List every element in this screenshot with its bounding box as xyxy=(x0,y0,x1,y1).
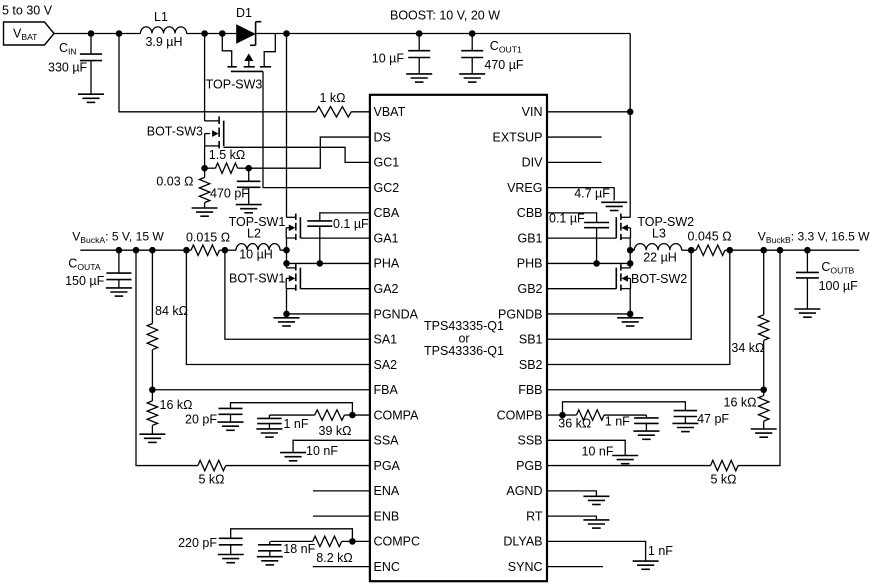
inductor L3 xyxy=(630,227,691,265)
svg-text:10 µH: 10 µH xyxy=(239,248,273,262)
ground (10 uF) xyxy=(406,74,432,82)
transistor TOP-SW1 xyxy=(229,214,301,241)
wire: SB1 xyxy=(547,250,691,339)
svg-text:PGB: PGB xyxy=(516,459,542,473)
pin label FBB xyxy=(518,383,542,397)
svg-text:SB1: SB1 xyxy=(519,333,543,347)
junction: PHB node xyxy=(627,260,634,267)
wire: BOT-SW3 gate to GC1 xyxy=(224,147,370,162)
ground (AGND) xyxy=(583,496,609,504)
svg-text:5 kΩ: 5 kΩ xyxy=(710,473,736,487)
svg-text:0.015 Ω: 0.015 Ω xyxy=(186,231,230,245)
svg-text:CBA: CBA xyxy=(374,206,400,220)
svg-text:GC1: GC1 xyxy=(374,156,400,170)
pin label SA1 xyxy=(374,333,398,347)
svg-text:22 µH: 22 µH xyxy=(643,251,677,265)
svg-text:5 to 30 V: 5 to 30 V xyxy=(2,4,53,18)
ground (RT) xyxy=(583,520,609,528)
svg-text:1 nF: 1 nF xyxy=(284,417,309,431)
svg-text:GA1: GA1 xyxy=(374,231,399,245)
svg-text:TOP-SW3: TOP-SW3 xyxy=(206,78,263,92)
svg-text:16 kΩ: 16 kΩ xyxy=(160,398,193,412)
pin label DS xyxy=(374,130,391,144)
resistor R 0.015 &#937; sense xyxy=(186,231,230,256)
wire: PGNDB to ground xyxy=(629,314,631,318)
wire: COMPA to 20 pF xyxy=(231,403,353,415)
pin label AGND xyxy=(506,484,542,498)
junction: COUTB tap xyxy=(804,247,811,254)
svg-text:GB2: GB2 xyxy=(517,282,542,296)
wire: PGNDA xyxy=(287,313,370,315)
pin label PHA xyxy=(374,257,400,271)
svg-text:AGND: AGND xyxy=(506,484,542,498)
svg-text:BOT-SW1: BOT-SW1 xyxy=(229,272,285,286)
resistor R 36 k&#937; xyxy=(558,410,646,431)
junction: A sense left xyxy=(183,247,190,254)
ground (47 pF) xyxy=(672,423,698,431)
svg-text:1 nF: 1 nF xyxy=(605,415,630,429)
wire: GA1 to TOP-SW1 gate xyxy=(300,237,370,239)
wire: VBAT pin branch xyxy=(119,34,316,112)
svg-text:FBB: FBB xyxy=(518,383,542,397)
svg-text:GC2: GC2 xyxy=(374,181,400,195)
svg-text:CBB: CBB xyxy=(517,206,543,220)
svg-text:COUTB: COUTB xyxy=(821,260,854,276)
ground (COUT1) xyxy=(459,74,485,82)
junction: CBB cap to PHB xyxy=(593,260,600,267)
svg-text:470 pF: 470 pF xyxy=(210,187,249,201)
resistor R 1 k&#937; xyxy=(316,91,370,117)
capacitor COUTB xyxy=(796,250,858,309)
svg-text:BOT-SW2: BOT-SW2 xyxy=(631,272,687,286)
svg-text:5 kΩ: 5 kΩ xyxy=(198,473,224,487)
junction: CBA cap to PHA xyxy=(317,260,324,267)
wire: FBA xyxy=(152,389,370,391)
wire: DLYAB xyxy=(547,541,673,561)
junction: COUTA tap xyxy=(116,247,123,254)
capacitor 10 &#181;F xyxy=(372,34,430,74)
resistor R 1.5 k&#937; xyxy=(205,148,249,173)
junction: FBA node xyxy=(149,386,156,393)
junction: COMPB node xyxy=(559,412,566,419)
resistor R 5 k&#937; (B) xyxy=(710,250,780,486)
capacitor 1 nF (COMPA) xyxy=(257,415,309,431)
wire: AGND xyxy=(547,491,596,496)
svg-text:8.2 kΩ: 8.2 kΩ xyxy=(316,551,352,565)
svg-text:0.1 µF: 0.1 µF xyxy=(549,212,585,226)
pin stub ENC xyxy=(313,566,370,568)
pin label SYNC xyxy=(508,560,543,574)
wire: VIN drop xyxy=(547,34,630,218)
resistor R 39 k&#937; xyxy=(269,410,352,438)
svg-text:BOT-SW3: BOT-SW3 xyxy=(147,125,203,139)
resistor R 34 k&#937; xyxy=(731,250,769,390)
junction: L3 tap xyxy=(627,247,634,254)
svg-text:GB1: GB1 xyxy=(517,231,542,245)
svg-text:DLYAB: DLYAB xyxy=(503,535,542,549)
junction: PGNDB xyxy=(627,311,634,318)
wire: BOT-SW2 source xyxy=(629,289,631,314)
svg-text:SA1: SA1 xyxy=(374,333,398,347)
junction: PGA tap xyxy=(133,247,140,254)
wire: RT xyxy=(547,516,596,520)
wire: boost out to TOP-SW1 drain xyxy=(286,34,288,218)
resistor R 0.045 &#937; sense xyxy=(687,230,731,256)
svg-text:VREG: VREG xyxy=(507,181,542,195)
wire: DS net xyxy=(249,137,370,168)
IC U1 part number text xyxy=(424,319,504,358)
transistor TOP-SW2 xyxy=(616,214,694,241)
svg-text:PHA: PHA xyxy=(374,257,400,271)
svg-text:330 µF: 330 µF xyxy=(48,61,88,75)
capacitor COUTA xyxy=(65,250,131,288)
wire: COMPA xyxy=(352,414,370,416)
junction: SW3 sense node xyxy=(201,165,208,172)
svg-text:0.1 µF: 0.1 µF xyxy=(333,217,369,231)
ground (0.03 ohm) xyxy=(192,208,218,216)
svg-text:COMPC: COMPC xyxy=(374,535,421,549)
wire: GB1 to TOP-SW2 gate xyxy=(547,237,616,239)
wire: SSB xyxy=(547,440,625,458)
ground (470 pF) xyxy=(236,205,262,213)
capacitor CBA bootstrap 0.1 &#181;F xyxy=(307,213,370,264)
junction: 10uF tap xyxy=(416,30,423,37)
junction: boost SW node xyxy=(201,30,208,37)
junction: PHA node xyxy=(283,260,290,267)
svg-text:0.045 Ω: 0.045 Ω xyxy=(687,230,731,244)
svg-text:470 µF: 470 µF xyxy=(484,58,524,72)
wire: SA1 xyxy=(225,250,370,339)
svg-text:DS: DS xyxy=(374,130,391,144)
capacitor 1 nF (COMPB) xyxy=(605,415,659,432)
junction: COMPC node xyxy=(349,538,356,545)
svg-text:PHB: PHB xyxy=(517,257,543,271)
pin stub ENB xyxy=(313,515,370,517)
svg-text:4.7 µF: 4.7 µF xyxy=(574,187,610,201)
pin label GB1 xyxy=(517,231,542,245)
pin label SA2 xyxy=(374,358,398,372)
junction: A sense right xyxy=(222,247,229,254)
wire: TOP-SW3 gate to GC2 xyxy=(263,71,370,187)
wire: PGA xyxy=(136,250,198,465)
svg-text:VBuckA: 5 V, 15 W: VBuckA: 5 V, 15 W xyxy=(72,230,164,246)
inductor L2 xyxy=(225,227,287,262)
pin label PGNDA xyxy=(374,307,419,321)
svg-text:20 pF: 20 pF xyxy=(185,413,217,427)
pin label SB1 xyxy=(519,333,543,347)
pin label VBAT xyxy=(374,105,406,119)
svg-text:84 kΩ: 84 kΩ xyxy=(155,304,188,318)
transistor TOP-SW3 xyxy=(206,34,276,92)
wire: COMPC xyxy=(352,540,370,542)
pin label ENB xyxy=(374,509,400,523)
pin label GC2 xyxy=(374,181,400,195)
svg-text:VBAT: VBAT xyxy=(13,27,38,43)
svg-text:VIN: VIN xyxy=(522,105,543,119)
pin label SSB xyxy=(517,434,542,448)
pin label CBB xyxy=(517,206,543,220)
wire: VBuckB rail xyxy=(730,249,860,251)
svg-text:18 nF: 18 nF xyxy=(283,542,315,556)
inductor L1 xyxy=(140,10,186,49)
wire: VREG decoupling xyxy=(547,187,614,201)
pin label SSA xyxy=(374,434,400,448)
wire: COMPB xyxy=(547,414,563,416)
svg-text:10 nF: 10 nF xyxy=(306,444,338,458)
pin label GB2 xyxy=(517,282,542,296)
junction: B sense right xyxy=(727,247,734,254)
wire: BOT-SW1 source xyxy=(286,289,288,314)
resistor R 84 k&#937; xyxy=(147,250,188,390)
pin label PGA xyxy=(374,459,401,473)
junction: B sense left xyxy=(688,247,695,254)
wire: GB2 to BOT-SW2 gate xyxy=(547,288,616,290)
ground (SSB 10 nF) xyxy=(612,456,638,464)
ground (CIN) xyxy=(78,94,104,102)
ground (4.7 uF) xyxy=(601,202,627,210)
junction: PGB tap xyxy=(777,247,784,254)
svg-text:DIV: DIV xyxy=(522,156,544,170)
svg-text:SB2: SB2 xyxy=(519,358,543,372)
wire: SB2 xyxy=(547,250,730,364)
pin label GA2 xyxy=(374,282,399,296)
svg-text:47 pF: 47 pF xyxy=(697,412,729,426)
svg-text:34 kΩ: 34 kΩ xyxy=(731,341,764,355)
net label: 5 to 30 V xyxy=(2,4,53,18)
wire: PHA xyxy=(287,262,370,264)
svg-text:GA2: GA2 xyxy=(374,282,399,296)
svg-text:SSA: SSA xyxy=(374,434,400,448)
pin label GA1 xyxy=(374,231,399,245)
pin label VREG xyxy=(507,181,542,195)
net label: BOOST: 10 V, 20 W xyxy=(390,9,500,23)
svg-text:PGA: PGA xyxy=(374,459,401,473)
capacitor CBB bootstrap 0.1 &#181;F xyxy=(547,212,609,264)
svg-text:L1: L1 xyxy=(154,10,168,24)
svg-text:TOP-SW1: TOP-SW1 xyxy=(229,215,286,229)
pin label COMPA xyxy=(374,408,420,422)
VBAT input flag xyxy=(4,22,55,45)
ground (20 pF) xyxy=(218,422,244,430)
junction: PGNDA xyxy=(283,311,290,318)
svg-text:COMPA: COMPA xyxy=(374,408,420,422)
svg-text:10 nF: 10 nF xyxy=(582,445,614,459)
resistor R 8.2 k&#937; xyxy=(271,536,353,565)
svg-text:COUT1: COUT1 xyxy=(490,39,522,55)
wire: VBuckA rail xyxy=(80,249,186,251)
svg-text:SA2: SA2 xyxy=(374,358,398,372)
svg-text:1 nF: 1 nF xyxy=(648,544,673,558)
junction: boost output xyxy=(283,30,290,37)
transistor BOT-SW1 xyxy=(229,264,300,291)
junction: VBAT branch xyxy=(116,30,123,37)
resistor R 5 k&#937; (A) xyxy=(198,460,370,486)
junction: FBA divider tap xyxy=(149,247,156,254)
ground (PGNDB) xyxy=(617,318,643,326)
pin label ENA xyxy=(374,484,400,498)
pin label GC1 xyxy=(374,156,400,170)
wire: SA2 xyxy=(186,250,370,364)
svg-text:VBAT: VBAT xyxy=(374,105,406,119)
svg-text:1.5 kΩ: 1.5 kΩ xyxy=(209,148,245,162)
svg-text:3.9 µH: 3.9 µH xyxy=(145,35,182,49)
pin stub EXTSUP xyxy=(547,136,602,138)
svg-text:0.03 Ω: 0.03 Ω xyxy=(156,175,193,189)
capacitor CIN xyxy=(48,34,102,95)
wire: FBB xyxy=(547,389,764,391)
net label: VBuckB 3.3 V, 16.5 W xyxy=(758,230,870,246)
junction: CIN tap xyxy=(88,30,95,37)
wire: PGB xyxy=(547,465,711,467)
transistor BOT-SW3 xyxy=(147,116,224,148)
pin label SB2 xyxy=(519,358,543,372)
pin stub DIV xyxy=(547,161,602,163)
pin label PHB xyxy=(517,257,543,271)
wire: PHB xyxy=(547,262,630,264)
pin label FBA xyxy=(374,383,399,397)
junction: DS/RC node xyxy=(245,165,252,172)
junction: COMPA node xyxy=(349,412,356,419)
svg-text:39 kΩ: 39 kΩ xyxy=(319,424,352,438)
wire: A SW node xyxy=(286,238,288,268)
junction: FBB node xyxy=(760,386,767,393)
pin label PGNDB xyxy=(498,307,542,321)
svg-text:D1: D1 xyxy=(236,6,252,20)
pin stub ENA xyxy=(313,490,370,492)
pin label EXTSUP xyxy=(492,130,542,144)
svg-text:220 pF: 220 pF xyxy=(178,536,217,550)
ground (18 nF) xyxy=(257,557,283,565)
wire: COMPB to 47 pF xyxy=(563,402,686,415)
pin label PGB xyxy=(516,459,542,473)
pin label ENC xyxy=(374,560,400,574)
ground (COUTA) xyxy=(106,288,132,296)
wire: PGNDB xyxy=(547,313,630,315)
pin label VIN xyxy=(522,105,543,119)
junction: COUT1 tap xyxy=(469,30,476,37)
pin label DIV xyxy=(522,156,544,170)
svg-text:100 µF: 100 µF xyxy=(819,279,859,293)
svg-text:16 kΩ: 16 kΩ xyxy=(724,396,757,410)
junction: TOP-SW3 left leg xyxy=(219,30,226,37)
svg-text:ENC: ENC xyxy=(374,560,400,574)
pin label RT xyxy=(526,509,543,523)
svg-text:PGNDB: PGNDB xyxy=(498,307,542,321)
capacitor 18 nF xyxy=(258,541,316,556)
svg-text:1 kΩ: 1 kΩ xyxy=(319,91,345,105)
wire: B SW node xyxy=(629,238,631,268)
net label: VBuckA 5 V, 15 W xyxy=(72,230,164,246)
pin label DLYAB xyxy=(503,535,542,549)
transistor BOT-SW2 xyxy=(616,264,687,291)
resistor R 16 k&#937; (A) xyxy=(147,390,192,434)
svg-text:10 µF: 10 µF xyxy=(372,52,405,66)
svg-text:150 µF: 150 µF xyxy=(65,274,105,288)
svg-text:BOOST: 10 V, 20 W: BOOST: 10 V, 20 W xyxy=(390,9,500,23)
svg-text:CIN: CIN xyxy=(59,41,77,57)
wire: BOT-SW3 source xyxy=(204,146,206,168)
wire: SSA xyxy=(293,440,370,458)
svg-text:COUTA: COUTA xyxy=(68,257,101,273)
ground (1 nF B) xyxy=(633,431,659,439)
svg-text:COMPB: COMPB xyxy=(497,408,543,422)
ground (1 nF A) xyxy=(256,429,282,437)
ground (DLYAB 1 nF) xyxy=(633,561,659,569)
svg-text:SSB: SSB xyxy=(517,434,542,448)
svg-text:ENB: ENB xyxy=(374,509,400,523)
svg-text:ENA: ENA xyxy=(374,484,400,498)
ground (PGNDA) xyxy=(274,318,300,326)
svg-text:PGNDA: PGNDA xyxy=(374,307,419,321)
capacitor COUT1 xyxy=(461,34,524,74)
wire: COMPC to 220 pF xyxy=(231,529,353,542)
pin label CBA xyxy=(374,206,400,220)
ground (SSA 10 nF) xyxy=(280,453,306,461)
svg-text:EXTSUP: EXTSUP xyxy=(492,130,542,144)
resistor R 16 k&#937; (B) xyxy=(724,390,769,429)
svg-text:TPS43336-Q1: TPS43336-Q1 xyxy=(424,344,504,358)
svg-text:VBuckB: 3.3 V, 16.5 W: VBuckB: 3.3 V, 16.5 W xyxy=(758,230,870,246)
diode D1 xyxy=(236,6,261,45)
wire: input rail xyxy=(54,33,630,35)
ground (16k B) xyxy=(751,429,777,437)
wire: PGNDA to ground xyxy=(286,314,288,318)
ground (220 pF) xyxy=(218,555,244,563)
IC U1 TPS43335-Q1 box xyxy=(370,95,547,581)
capacitor 20 pF xyxy=(185,408,242,426)
junction: L2 tap xyxy=(283,247,290,254)
wire: BOT-SW3 drain xyxy=(204,34,206,122)
capacitor 470 pF xyxy=(210,168,261,204)
junction: FBB divider tap xyxy=(760,247,767,254)
svg-text:36 kΩ: 36 kΩ xyxy=(558,417,591,431)
svg-text:L3: L3 xyxy=(652,227,666,241)
svg-text:SYNC: SYNC xyxy=(508,560,543,574)
ground (16k A) xyxy=(139,434,165,442)
pin stub SYNC xyxy=(547,566,603,568)
pin label COMPC xyxy=(374,535,421,549)
junction: VIN xyxy=(627,109,634,116)
resistor R 0.03 &#937; xyxy=(156,168,209,208)
ground (COUTB) xyxy=(794,309,820,317)
capacitor 220 pF xyxy=(178,536,243,555)
svg-text:FBA: FBA xyxy=(374,383,399,397)
svg-text:RT: RT xyxy=(526,509,543,523)
capacitor 47 pF xyxy=(674,411,730,426)
pin label COMPB xyxy=(497,408,543,422)
wire: GA2 to BOT-SW1 gate xyxy=(300,288,370,290)
